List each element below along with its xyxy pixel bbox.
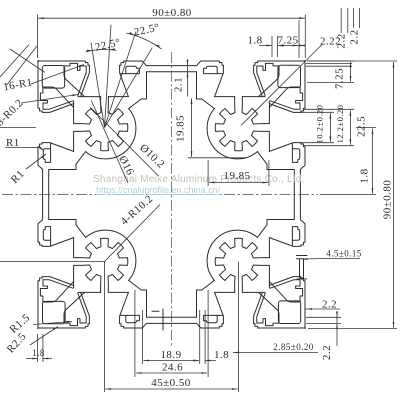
angle dimension 22.5° (slot wall, right) (105, 22, 162, 128)
dimension 90±0.80 overall width (top) (38, 7, 306, 58)
svg-text:12.2±0.20: 12.2±0.20 (335, 105, 345, 144)
dimension 7.25 right-side lip depth (307, 61, 354, 89)
leader tails at top-left corner (0, 45, 45, 86)
corner square hole top-right (278, 65, 301, 87)
profile outer wall, T-slots and cavities: bottom side (38, 280, 306, 328)
label R2.5 corner hole inner radius (5, 327, 58, 356)
vertical centerline (171, 52, 173, 348)
corner square hole bottom-left (43, 301, 66, 323)
dimension 4.5±0.15 clip width (302, 249, 362, 261)
dimension 1.8 channel wall (bottom) (194, 310, 229, 364)
corner square hole top-left (42, 66, 64, 89)
dimension 18.9 centre channel inner width (143, 310, 200, 364)
svg-text:2.1: 2.1 (173, 77, 185, 92)
svg-text:2.2: 2.2 (335, 33, 347, 48)
svg-text:90±0.80: 90±0.80 (152, 7, 191, 19)
svg-text:R1: R1 (6, 137, 20, 149)
dimension 19.85 boss height (vertical) (175, 99, 247, 158)
svg-text:19.85: 19.85 (224, 170, 251, 182)
svg-text:4.5±0.15: 4.5±0.15 (326, 249, 362, 259)
label R1.5 corner hole outer radius (7, 312, 72, 336)
dimension 1.8 left channel wall (26, 334, 52, 362)
dimension 2.1 recess wall thickness (173, 59, 189, 97)
svg-text:2.2: 2.2 (321, 345, 333, 360)
dimension 24.6 centre channel outer width (135, 290, 208, 377)
label 8-R0.2 wall fillets (0, 94, 78, 128)
svg-text:2.2: 2.2 (322, 299, 337, 311)
dimensions 2.2 / 2.2 corner steps (rotated) (306, 8, 361, 66)
svg-text:1.8: 1.8 (359, 168, 371, 183)
dimension 7.25 top-right (277, 20, 305, 58)
dimension 1.8 top-right wall (247, 35, 282, 58)
dimension 22.5 slot centre to centerline (320, 116, 376, 195)
svg-text:24.6: 24.6 (162, 362, 183, 374)
svg-text:45±0.50: 45±0.50 (151, 377, 190, 389)
profile outer wall, T-slots and cavities: left side (38, 61, 86, 329)
dimension 10.2±0.20 slot opening (300, 105, 334, 144)
screw-boss rosette bottom-right (gear bore, R10.2 arc, flats) (207, 230, 269, 292)
dimension 2.2 bottom-right wall (horizontal) (306, 299, 341, 311)
svg-text:7.25: 7.25 (334, 68, 346, 89)
angle dimension 22.5° (slot wall, left) (86, 25, 122, 128)
dimension 2.2 bottom recess wall (vertical) (306, 311, 341, 360)
dimension 45±0.50 slot spacing (105, 262, 239, 393)
screw-boss rosette top-left (gear bore, R10.2 arc, flats) (74, 97, 136, 159)
label 16-R1 lip fillets (2, 65, 84, 94)
label Ø10.2 bore diameter (90, 107, 167, 176)
horizontal centerline (2, 194, 318, 196)
dimension 19.85 boss width (horizontal) (208, 160, 269, 186)
corner square hole bottom-right (278, 301, 300, 324)
label R1 left slot lip (rotated) (9, 154, 46, 186)
screw-boss rosette bottom-left (gear bore, R10.2 arc, flats) (74, 230, 136, 292)
clip detail on right side wall (297, 256, 308, 280)
dimension 2.22 corner wall (241, 36, 341, 126)
label R1 left slot lip (5, 137, 44, 151)
slot-row centerline stubs (left) (0, 128, 105, 262)
svg-text:7.25: 7.25 (277, 35, 298, 47)
svg-text:2.85±0.20: 2.85±0.20 (273, 342, 314, 352)
dimension 2.85±0.20 channel wall (233, 342, 318, 353)
svg-text:https://cnaluprofile.en.china.: https://cnaluprofile.en.china.cn/ (96, 185, 221, 195)
svg-text:22.5: 22.5 (356, 116, 368, 137)
label 4-R10.2 boss corner radii (105, 193, 161, 262)
svg-text:2.2: 2.2 (349, 29, 361, 44)
dimension 90±0.80 overall height (right) (308, 61, 397, 329)
svg-text:10.2±0.20: 10.2±0.20 (315, 105, 325, 144)
label Ø16 rosette diameter (91, 101, 136, 184)
svg-text:90±0.80: 90±0.80 (382, 180, 394, 219)
svg-text:1.8: 1.8 (214, 349, 229, 361)
profile outer wall, T-slots and cavities: top side (38, 61, 306, 109)
svg-text:1.8: 1.8 (247, 35, 262, 47)
svg-text:18.9: 18.9 (160, 349, 181, 361)
profile outer wall, T-slots and cavities: right side (257, 61, 305, 329)
screw-boss rosette top-right (gear bore, R10.2 arc, flats) (207, 97, 269, 159)
dimension 1.8 right-side wall (rotated) (359, 168, 371, 183)
svg-text:19.85: 19.85 (175, 115, 187, 142)
dimension 12.2±0.20 slot lips (303, 105, 354, 146)
rib tick, bottom centre channel (152, 309, 163, 330)
svg-text:1.8: 1.8 (32, 348, 45, 358)
